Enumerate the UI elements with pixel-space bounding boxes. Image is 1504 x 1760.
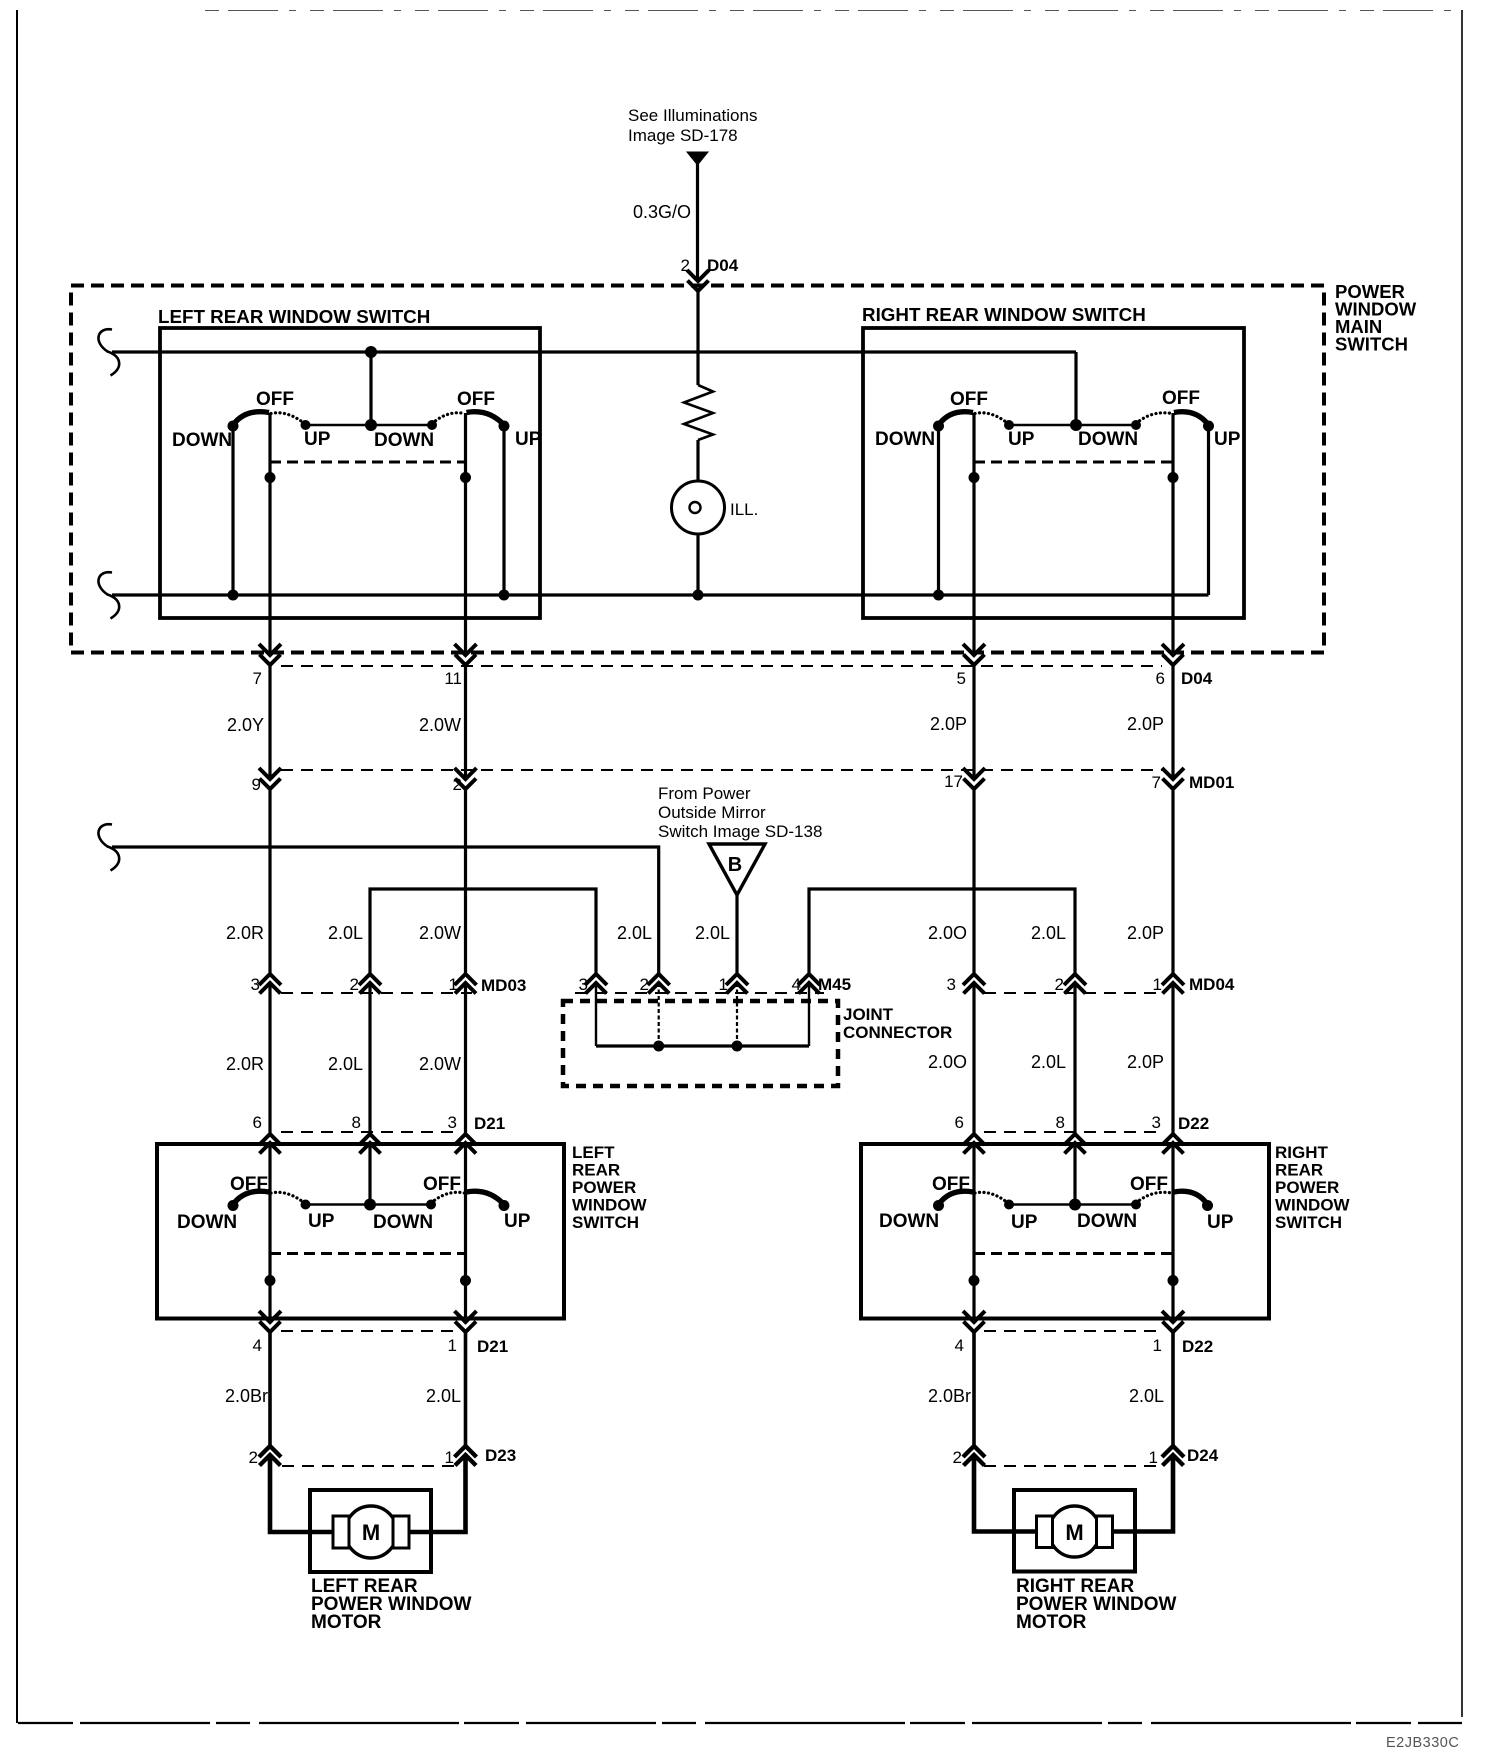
connector line D04 (dashed) xyxy=(281,665,1162,667)
page border right xyxy=(1461,10,1463,1717)
svg-text:7: 7 xyxy=(1152,773,1161,792)
mech link dot pole 2 (left power switch) xyxy=(460,1275,471,1286)
svg-text:2.0P: 2.0P xyxy=(1127,714,1164,734)
connector MD01 pin 7 chevrons xyxy=(1162,768,1184,779)
junction dot DOWN1 right box xyxy=(933,590,944,601)
motor M1 armature circle xyxy=(345,1506,397,1558)
wire 2.0P MD01 pin7 to MD04 pin1 xyxy=(1171,791,1174,975)
svg-text:2.0W: 2.0W xyxy=(419,1054,461,1074)
wire 2.0L MD03 pin2 to D21 pin8 xyxy=(368,983,371,1134)
svg-text:UP: UP xyxy=(1008,429,1035,450)
connector line MD03 (dashed) xyxy=(281,992,472,994)
label POWER WINDOW MAIN SWITCH xyxy=(1335,281,1417,355)
connector MD04 pin 2 chevrons xyxy=(1064,974,1086,985)
switch wiper arm (left, DOWN-OFF) xyxy=(939,1191,974,1204)
page border left xyxy=(16,10,18,1723)
connector D22 pin 3 chevrons xyxy=(1162,1134,1184,1145)
svg-text:2: 2 xyxy=(453,775,462,794)
svg-text:4: 4 xyxy=(955,1336,964,1355)
mech link dot right pole xyxy=(460,472,471,483)
wire: joint link right M45 pin4 to MD04 pin2 xyxy=(809,889,1075,974)
label RIGHT REAR POWER WINDOW SWITCH xyxy=(1275,1143,1351,1232)
svg-text:WINDOW: WINDOW xyxy=(1275,1196,1351,1215)
svg-text:3: 3 xyxy=(448,1113,457,1132)
wire D23 pin2 to motor (left lead) xyxy=(270,1455,340,1532)
continuation hook, mirror feed wire xyxy=(98,824,119,870)
svg-text:D23: D23 xyxy=(485,1446,516,1465)
labels OFF/DOWN/UP right window switch xyxy=(875,388,1241,450)
svg-text:2.0L: 2.0L xyxy=(328,923,363,943)
joint connector internal stub pin 2 xyxy=(658,983,660,1046)
svg-text:1: 1 xyxy=(1153,975,1162,994)
svg-text:RIGHT REAR WINDOW SWITCH: RIGHT REAR WINDOW SWITCH xyxy=(862,304,1146,325)
illumination lamp ILL. xyxy=(672,481,725,534)
wire: UP2 contact to bottom rail xyxy=(502,426,505,595)
component box: POWER WINDOW MAIN SWITCH (dashed) xyxy=(71,286,1324,653)
svg-text:D22: D22 xyxy=(1182,1337,1213,1356)
svg-text:2.0L: 2.0L xyxy=(1129,1386,1164,1406)
svg-text:2.0R: 2.0R xyxy=(226,1054,264,1074)
contact dot UP (right pole) xyxy=(499,421,510,432)
junction dot DOWN1 at bottom rail xyxy=(228,590,239,601)
svg-text:UP: UP xyxy=(1207,1212,1234,1233)
svg-text:LEFT: LEFT xyxy=(572,1143,615,1162)
svg-text:Outside Mirror: Outside Mirror xyxy=(658,803,766,822)
wire 2.0R MD03 pin3 to D21 pin6 xyxy=(268,983,271,1134)
motor M1 brush right xyxy=(393,1516,409,1548)
switch wiper arm (right, OFF-UP) xyxy=(467,412,505,425)
svg-text:5: 5 xyxy=(957,669,966,688)
svg-text:OFF: OFF xyxy=(230,1174,268,1195)
svg-text:4: 4 xyxy=(792,975,801,994)
contact dot DOWN (left pole) xyxy=(933,1200,944,1211)
svg-text:OFF: OFF xyxy=(457,389,495,410)
wire D21 pin6 into switch pole 1 xyxy=(268,1143,271,1193)
label LEFT REAR POWER WINDOW SWITCH xyxy=(572,1143,648,1232)
svg-text:1: 1 xyxy=(1153,1336,1162,1355)
svg-text:LEFT REAR WINDOW SWITCH: LEFT REAR WINDOW SWITCH xyxy=(158,306,430,327)
svg-text:JOINT: JOINT xyxy=(843,1005,894,1024)
svg-text:CONNECTOR: CONNECTOR xyxy=(843,1023,952,1042)
svg-text:6: 6 xyxy=(955,1113,964,1132)
svg-text:2.0W: 2.0W xyxy=(419,715,461,735)
connector M45 pin 2 chevrons xyxy=(648,974,670,985)
page border top (faded) xyxy=(205,10,1462,12)
wire 2.0P pin5 to MD01 pin17 xyxy=(972,665,975,779)
svg-text:3: 3 xyxy=(579,975,588,994)
connector MD03 pin 2 chevrons xyxy=(359,974,381,985)
svg-text:Switch Image SD-138: Switch Image SD-138 xyxy=(658,822,822,841)
svg-text:RIGHT: RIGHT xyxy=(1275,1143,1329,1162)
mech link dot pole 2 (right power switch) xyxy=(1168,1275,1179,1286)
switch wiper dotted throw (left, OFF-UP) xyxy=(271,1192,305,1203)
svg-text:3: 3 xyxy=(947,975,956,994)
svg-text:2.0L: 2.0L xyxy=(328,1054,363,1074)
svg-text:17: 17 xyxy=(944,772,963,791)
wire: left switch pole 2 down to pin 11 xyxy=(464,413,467,655)
contact dot UP (left pole) xyxy=(1004,1200,1014,1210)
svg-text:11: 11 xyxy=(444,669,462,688)
connector D22 pin 1 chevrons xyxy=(1162,1311,1184,1322)
svg-text:2.0P: 2.0P xyxy=(1127,923,1164,943)
connector line D24 (dashed) xyxy=(984,1465,1160,1467)
svg-text:DOWN: DOWN xyxy=(1078,429,1138,450)
continuation hook, bottom rail xyxy=(98,572,119,618)
contact dot DOWN (left pole) xyxy=(933,421,944,432)
svg-text:OFF: OFF xyxy=(1162,388,1200,409)
wire: DOWN1 contact to bottom rail xyxy=(231,426,234,595)
wire D24 pin1 to motor (right lead) xyxy=(1104,1455,1173,1532)
wire: right power switch bar UP1-DOWN2 xyxy=(1009,1203,1136,1206)
wire D21 pin3 into switch pole 2 xyxy=(464,1143,467,1193)
contact dot UP (left pole) xyxy=(1004,420,1014,430)
svg-text:2.0L: 2.0L xyxy=(1031,1052,1066,1072)
switch wiper dotted throw (right, DOWN-OFF) xyxy=(431,1192,465,1203)
contact dot DOWN (right pole) xyxy=(1131,1200,1141,1210)
motor M1: LEFT REAR POWER WINDOW MOTOR box xyxy=(310,1490,431,1572)
svg-text:POWER: POWER xyxy=(572,1178,636,1197)
svg-text:E2JB330C: E2JB330C xyxy=(1386,1735,1459,1751)
svg-text:MOTOR: MOTOR xyxy=(311,1612,382,1633)
mech link dot right box pole 1 xyxy=(969,472,980,483)
connector D04 pin 5 chevrons xyxy=(963,644,985,655)
junction dot node A (top rail to left switch common) xyxy=(365,346,377,358)
svg-text:OFF: OFF xyxy=(423,1174,461,1195)
svg-text:OFF: OFF xyxy=(256,389,294,410)
svg-text:D21: D21 xyxy=(477,1337,508,1356)
svg-text:2.0P: 2.0P xyxy=(1127,1052,1164,1072)
wire 2.0Br D21 pin4 to D23 pin2 xyxy=(268,1332,272,1446)
wire from triangle B down to M45 pin 1 xyxy=(735,895,738,974)
svg-text:D04: D04 xyxy=(1181,669,1213,688)
joint connector internal bus xyxy=(596,1044,809,1047)
joint connector internal stub pin 4 xyxy=(808,983,810,1046)
svg-text:From Power: From Power xyxy=(658,784,751,803)
svg-text:6: 6 xyxy=(253,1113,262,1132)
wire 2.0P MD04 pin1 to D22 pin3 xyxy=(1171,983,1174,1134)
connector D23 pin 1 chevrons xyxy=(455,1446,477,1457)
switch wiper dotted throw (right, DOWN-OFF) xyxy=(1136,1192,1172,1203)
connector M45 pin 1 chevrons xyxy=(726,974,748,985)
connector line MD04 (dashed) xyxy=(984,992,1162,994)
mech link dot pole 1 (left power switch) xyxy=(265,1275,276,1286)
wire D23 pin1 to motor (right lead) xyxy=(400,1455,466,1532)
junction dot on left switch bar xyxy=(365,419,377,431)
page border bottom (broken) xyxy=(18,1722,1462,1724)
joint bus junction dot pin 1 xyxy=(732,1041,743,1052)
connector line D22 bottom (dashed) xyxy=(984,1330,1160,1332)
svg-text:1: 1 xyxy=(1149,1448,1158,1467)
motor M2: RIGHT REAR POWER WINDOW MOTOR box xyxy=(1014,1490,1135,1572)
contact dot UP (right pole) xyxy=(1203,421,1214,432)
wire: mirror feed rail y=847 to M45 pin 2 drop xyxy=(112,847,659,974)
svg-text:UP: UP xyxy=(1214,429,1241,450)
wire 2.0W pin11 to MD01 pin2 xyxy=(464,665,467,779)
svg-text:UP: UP xyxy=(308,1211,335,1232)
switch wiper dotted throw (left, OFF-UP) xyxy=(975,413,1008,424)
connector MD03 pin 1 chevrons xyxy=(455,974,477,985)
wire 2.0L D21 pin1 to D23 pin1 xyxy=(464,1332,468,1446)
contact dot DOWN (right pole) xyxy=(1131,420,1141,430)
svg-text:MD03: MD03 xyxy=(481,976,526,995)
joint connector internal stub pin 3 xyxy=(595,983,597,1046)
svg-text:1: 1 xyxy=(445,1448,454,1467)
wire 2.0R MD01 pin9 to MD03 pin3 xyxy=(268,791,271,975)
wire 2.0O MD04 pin3 to D22 pin6 xyxy=(972,983,975,1134)
mechanical link dashed (left window switch) xyxy=(270,461,466,464)
mech link dot left pole xyxy=(265,472,276,483)
svg-text:DOWN: DOWN xyxy=(879,1211,939,1232)
component box: RIGHT REAR POWER WINDOW SWITCH xyxy=(861,1144,1269,1319)
wire 2.0W MD01 pin2 to MD03 pin1 xyxy=(464,791,467,975)
svg-text:See Illuminations: See Illuminations xyxy=(628,106,757,125)
svg-text:ILL.: ILL. xyxy=(730,500,758,519)
mechanical link dashed (right power switch) xyxy=(974,1252,1173,1255)
svg-text:SWITCH: SWITCH xyxy=(572,1213,639,1232)
svg-text:7: 7 xyxy=(253,669,262,688)
svg-text:DOWN: DOWN xyxy=(177,1212,237,1233)
wire: left power switch bar UP1-DOWN2 xyxy=(306,1203,432,1206)
connector D04 pin 6 chevrons xyxy=(1162,644,1184,655)
wire: UP2 contact to bottom rail end (right box) xyxy=(1207,426,1210,595)
connector line D21 top (dashed) xyxy=(281,1131,455,1133)
wire: left box switch bar UP1-DOWN2 xyxy=(306,424,433,427)
svg-text:8: 8 xyxy=(1056,1113,1065,1132)
junction dot on right switch bar xyxy=(1070,419,1082,431)
connector line D21 bottom (dashed) xyxy=(281,1330,455,1332)
wire 2.0L MD04 pin2 to D22 pin8 xyxy=(1073,983,1076,1134)
svg-text:2.0Br: 2.0Br xyxy=(225,1386,268,1406)
connector D21 pin 3 chevrons xyxy=(455,1134,477,1145)
connector M45 pin 4 chevrons xyxy=(798,974,820,985)
connector MD01 pin 17 chevrons xyxy=(963,768,985,779)
connector line MD01 (dashed) xyxy=(281,769,1162,771)
svg-text:DOWN: DOWN xyxy=(875,429,935,450)
svg-text:3: 3 xyxy=(251,975,260,994)
svg-text:UP: UP xyxy=(1011,1212,1038,1233)
switch wiper arm (right, OFF-UP) xyxy=(467,1191,505,1204)
connector D04 pin 7 chevrons xyxy=(259,644,281,655)
svg-text:D04: D04 xyxy=(707,256,739,275)
wire 0.3G/O from illuminations arrow down to connector D04 pin 2 xyxy=(696,163,699,281)
svg-text:2: 2 xyxy=(953,1448,962,1467)
switch wiper dotted throw (left, OFF-UP) xyxy=(271,413,305,424)
svg-text:D21: D21 xyxy=(474,1114,505,1133)
svg-text:D24: D24 xyxy=(1187,1446,1219,1465)
label JOINT CONNECTOR xyxy=(843,1005,952,1042)
connector D22 pin 6 chevrons xyxy=(963,1134,985,1145)
mech link dot pole 1 (right power switch) xyxy=(969,1275,980,1286)
svg-text:2.0O: 2.0O xyxy=(928,1052,967,1072)
wire 2.0P pin6 to MD01 pin7 xyxy=(1171,665,1174,779)
wire 2.0W MD03 pin1 to D21 pin3 xyxy=(464,983,467,1134)
svg-text:OFF: OFF xyxy=(1130,1174,1168,1195)
svg-text:6: 6 xyxy=(1156,669,1165,688)
off-page arrow (to illuminations) xyxy=(687,152,708,165)
connector MD01 pin 9 chevrons xyxy=(259,768,281,779)
connector D22 pin 8 chevrons xyxy=(1064,1134,1086,1145)
component box: RIGHT REAR WINDOW SWITCH xyxy=(863,328,1244,618)
svg-text:1: 1 xyxy=(719,975,728,994)
wire D24 pin2 to motor (left lead) xyxy=(974,1455,1044,1532)
connector M45 pin 3 chevrons xyxy=(585,974,607,985)
connector MD01 pin 2 chevrons xyxy=(455,768,477,779)
switch wiper dotted throw (right, DOWN-OFF) xyxy=(1136,413,1172,424)
switch wiper arm (left, DOWN-OFF) xyxy=(939,412,974,425)
labels OFF/DOWN/UP right power switch xyxy=(879,1174,1234,1233)
wire: D04 pin2 down to resistor xyxy=(696,291,699,385)
connector MD03 pin 3 chevrons xyxy=(259,974,281,985)
wire: top feed rail y=352 across both switch boxes xyxy=(112,350,1076,353)
svg-text:2.0P: 2.0P xyxy=(930,714,967,734)
svg-text:M: M xyxy=(362,1520,380,1545)
switch wiper arm (right, OFF-UP) xyxy=(1174,412,1209,425)
connector D21 pin 6 chevrons xyxy=(259,1134,281,1145)
junction dot UP2 at bottom rail xyxy=(499,590,510,601)
svg-text:UP: UP xyxy=(504,1211,531,1232)
motor M2 brush left xyxy=(1037,1516,1053,1548)
svg-text:9: 9 xyxy=(252,775,261,794)
wire: right box switch bar UP1-DOWN2 xyxy=(1009,424,1136,427)
off-page triangle B (from power outside mirror switch) xyxy=(709,844,765,895)
svg-text:MOTOR: MOTOR xyxy=(1016,1612,1087,1633)
svg-text:DOWN: DOWN xyxy=(374,430,434,451)
resistor (illumination) xyxy=(684,385,713,440)
switch wiper arm (left, DOWN-OFF) xyxy=(233,412,269,425)
svg-text:UP: UP xyxy=(304,429,331,450)
svg-text:WINDOW: WINDOW xyxy=(572,1196,648,1215)
wire: joint link left MD03 pin2 to M45 pin3 xyxy=(370,889,596,974)
contact dot DOWN (right pole) xyxy=(427,420,437,430)
svg-text:2.0L: 2.0L xyxy=(695,923,730,943)
connector D24 pin 2 chevrons xyxy=(963,1446,985,1457)
svg-text:4: 4 xyxy=(253,1336,262,1355)
svg-text:REAR: REAR xyxy=(1275,1161,1323,1180)
label LEFT REAR POWER WINDOW MOTOR xyxy=(311,1576,471,1633)
connector D04 pin 2 chevrons xyxy=(687,270,709,281)
svg-text:POWER: POWER xyxy=(1275,1178,1339,1197)
svg-text:D22: D22 xyxy=(1178,1114,1209,1133)
svg-text:2: 2 xyxy=(249,1448,258,1467)
svg-text:DOWN: DOWN xyxy=(1077,1211,1137,1232)
motor M1 brush left xyxy=(333,1516,349,1548)
svg-text:REAR: REAR xyxy=(572,1161,620,1180)
wire: pole 1 down to D22 pin 4 xyxy=(972,1193,975,1323)
svg-text:2.0R: 2.0R xyxy=(226,923,264,943)
connector D21 pin 8 chevrons xyxy=(359,1134,381,1145)
contact dot DOWN (left pole) xyxy=(228,1200,239,1211)
connector D21 pin 4 chevrons xyxy=(259,1311,281,1322)
wire D21 pin8 into switch bar xyxy=(368,1143,371,1205)
svg-text:2.0Y: 2.0Y xyxy=(227,715,264,735)
wire: right switch pole 1 down to pin 5 xyxy=(972,413,975,655)
svg-text:SWITCH: SWITCH xyxy=(1275,1213,1342,1232)
contact dot DOWN (left pole) xyxy=(228,421,239,432)
wire 2.0L D22 pin1 to D24 pin1 xyxy=(1171,1332,1175,1446)
svg-text:2.0L: 2.0L xyxy=(426,1386,461,1406)
svg-text:2: 2 xyxy=(1055,975,1064,994)
component box: JOINT CONNECTOR (dashed) xyxy=(563,1001,838,1086)
connector D23 pin 2 chevrons xyxy=(259,1446,281,1457)
wire: pole 2 down to D22 pin 1 xyxy=(1171,1193,1174,1323)
svg-text:2.0L: 2.0L xyxy=(617,923,652,943)
connector D21 pin 1 chevrons xyxy=(455,1311,477,1322)
wire: lamp to bottom rail xyxy=(696,534,699,595)
wire: resistor to lamp xyxy=(696,440,699,482)
note: See Illuminations Image SD-178 xyxy=(628,106,757,145)
junction dot on left power switch bar xyxy=(364,1199,376,1211)
wire D22 pin8 into switch bar xyxy=(1073,1143,1076,1205)
svg-text:2.0Br: 2.0Br xyxy=(928,1386,971,1406)
joint connector internal stub pin 1 xyxy=(736,983,738,1046)
switch wiper dotted throw (right, DOWN-OFF) xyxy=(432,413,465,424)
joint bus junction dot pin 2 xyxy=(653,1041,664,1052)
mechanical link dashed (left power switch) xyxy=(270,1252,466,1255)
connector line D22 top (dashed) xyxy=(984,1131,1160,1133)
connector D24 pin 1 chevrons xyxy=(1162,1446,1184,1457)
wire: bottom rail y=595 across both switch boxes xyxy=(112,593,1209,596)
svg-text:8: 8 xyxy=(352,1113,361,1132)
svg-text:OFF: OFF xyxy=(950,389,988,410)
switch wiper arm (right, OFF-UP) xyxy=(1174,1191,1208,1204)
svg-text:SWITCH: SWITCH xyxy=(1335,334,1408,355)
motor M2 brush right xyxy=(1097,1516,1113,1548)
svg-text:DOWN: DOWN xyxy=(172,430,232,451)
switch wiper arm (left, DOWN-OFF) xyxy=(233,1191,269,1204)
svg-text:2.0W: 2.0W xyxy=(419,923,461,943)
svg-text:2.0O: 2.0O xyxy=(928,923,967,943)
continuation hook, top feed wire xyxy=(98,329,119,375)
note: From Power Outside Mirror Switch Image SD-138 xyxy=(658,784,822,841)
component box: LEFT REAR POWER WINDOW SWITCH xyxy=(157,1144,564,1319)
svg-text:MD01: MD01 xyxy=(1189,773,1234,792)
wire: right switch pole 2 down to pin 6 xyxy=(1171,413,1174,655)
connector line D23 (dashed) xyxy=(282,1465,455,1467)
motor M2 armature circle xyxy=(1049,1506,1100,1557)
switch wiper dotted throw (left, OFF-UP) xyxy=(975,1192,1008,1203)
wire: drop from top rail to left switch center xyxy=(369,352,372,425)
contact dot UP (right pole) xyxy=(1202,1200,1213,1211)
svg-text:M: M xyxy=(1065,1520,1083,1545)
svg-text:2: 2 xyxy=(350,975,359,994)
wire: left switch pole 1 down to pin 7 xyxy=(268,413,271,655)
connector line M45 (dashed) xyxy=(575,992,824,994)
wire: DOWN1 contact to bottom rail (right box) xyxy=(937,426,940,595)
svg-text:0.3G/O: 0.3G/O xyxy=(633,202,691,222)
wire 2.0O MD01 pin17 to MD04 pin3 xyxy=(972,791,975,975)
labels OFF/DOWN/UP left window switch xyxy=(172,389,542,451)
svg-text:3: 3 xyxy=(1152,1113,1161,1132)
wire D22 pin6 into switch pole 1 xyxy=(972,1143,975,1193)
svg-text:DOWN: DOWN xyxy=(373,1212,433,1233)
svg-text:B: B xyxy=(728,854,742,876)
contact dot DOWN (right pole) xyxy=(426,1200,436,1210)
svg-text:UP: UP xyxy=(515,429,542,450)
wire 2.0Br D22 pin4 to D24 pin2 xyxy=(972,1332,976,1446)
wire 2.0Y pin7 to MD01 pin9 xyxy=(268,665,271,779)
connector D04 pin 11 chevrons xyxy=(455,644,477,655)
mechanical link dashed (right window switch) xyxy=(974,461,1173,464)
connector D22 pin 4 chevrons xyxy=(963,1311,985,1322)
wire: pole 1 down to D21 pin 4 xyxy=(268,1193,271,1323)
junction dot on right power switch bar xyxy=(1069,1199,1081,1211)
svg-text:M45: M45 xyxy=(818,975,851,994)
svg-text:2.0L: 2.0L xyxy=(1031,923,1066,943)
label RIGHT REAR POWER WINDOW MOTOR xyxy=(1016,1576,1176,1633)
wire: pole 2 down to D21 pin 1 xyxy=(464,1193,467,1323)
wire D22 pin3 into switch pole 2 xyxy=(1171,1143,1174,1193)
component box: LEFT REAR WINDOW SWITCH xyxy=(160,328,540,618)
